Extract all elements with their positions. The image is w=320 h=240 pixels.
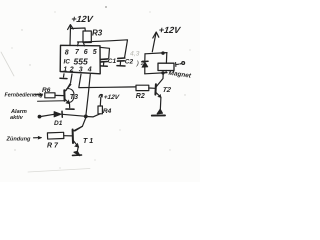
relay coil K1 body [158, 63, 174, 70]
input label Fernbedienung [5, 93, 44, 99]
pin labels 1 2 3 4 [63, 67, 92, 74]
wire pin 2 to T3 collector [66, 74, 72, 91]
faint scan scratch top-left [1, 52, 14, 76]
wire R3 to pins 7 and 6 [78, 42, 87, 46]
wire T3 emitter down [69, 104, 71, 108]
transistor T1 [73, 126, 83, 147]
ground T2 [152, 109, 165, 115]
svg-text:D1: D1 [54, 120, 63, 127]
svg-text:3: 3 [79, 67, 83, 74]
diode D2 flyback [142, 54, 148, 74]
wire T2 emitter down [159, 97, 162, 110]
value label 4,3 (pencil, faint) [130, 51, 140, 58]
svg-text:8: 8 [65, 50, 69, 57]
svg-text:Magnet: Magnet [168, 70, 192, 80]
label T1 [83, 138, 93, 145]
svg-text:+12V: +12V [103, 94, 120, 101]
svg-text:T 1: T 1 [83, 138, 93, 145]
svg-text:IC: IC [64, 59, 71, 66]
ground T3 [66, 108, 74, 110]
stray pen stroke under R6 [38, 100, 65, 102]
ground T1 [73, 151, 82, 155]
wire node A to T1 collector [75, 118, 86, 131]
label R4 [103, 108, 112, 115]
svg-text:C1: C1 [108, 58, 117, 65]
value mark )2 [136, 60, 145, 67]
svg-text:5: 5 [93, 49, 97, 56]
wire +12V branch to R3 [71, 28, 86, 31]
svg-text:T2: T2 [162, 87, 171, 94]
svg-text:R3: R3 [92, 29, 103, 38]
terminal Alarm aktiv [38, 115, 42, 119]
wire R6 to T3 base [55, 94, 64, 96]
input label Alarm aktiv [10, 109, 27, 121]
wire R3 node to C2 [86, 40, 128, 58]
+12V supply label (R4) [103, 94, 120, 101]
svg-text:+12V: +12V [158, 25, 182, 35]
arrow +12V (relay supply) [152, 32, 159, 52]
arrow +12V (R4) [99, 94, 103, 106]
transistor T3 [64, 85, 74, 104]
svg-text:T3: T3 [70, 94, 78, 101]
wire relay top node [145, 53, 167, 54]
wire R7 to T1 base [64, 135, 73, 137]
svg-text:4: 4 [87, 67, 92, 74]
svg-text:4,3: 4,3 [130, 51, 140, 58]
svg-text:555: 555 [74, 57, 88, 67]
+12V supply label (relay) [158, 25, 182, 35]
resistor R3 [83, 31, 91, 43]
arrow Zündung [34, 136, 42, 139]
arrow Fernbedienung [34, 93, 43, 97]
ground pin 1 [60, 74, 67, 79]
capacitor C2 [118, 58, 125, 65]
svg-text:2: 2 [69, 67, 74, 74]
resistor R7 [47, 132, 63, 139]
node top junction [161, 51, 164, 54]
label R7 [47, 143, 59, 150]
relay coil wire [165, 53, 168, 73]
svg-text:R 7: R 7 [47, 143, 59, 150]
wire terminal to D1 [42, 114, 55, 116]
ground C1 [100, 65, 107, 67]
svg-text:aktiv: aktiv [10, 115, 24, 121]
relay contact (dashed to terminal) [176, 62, 185, 67]
label C2 [125, 58, 134, 65]
svg-text:1: 1 [63, 67, 67, 74]
label R2 [136, 93, 145, 100]
svg-text:6: 6 [84, 49, 88, 56]
diode D1 [54, 111, 62, 117]
paper speckle noise [11, 6, 190, 168]
svg-text:+12V: +12V [71, 14, 95, 24]
transistor T2 [155, 74, 163, 98]
node bottom junction [161, 71, 164, 74]
resistor R4 [98, 106, 102, 114]
label C1 [108, 58, 117, 65]
input label Zündung [6, 137, 32, 143]
wire T1 emitter down [76, 147, 79, 152]
label IC 555 [64, 57, 88, 67]
wire pin 3 to R2 [79, 74, 136, 87]
label D1 [54, 120, 63, 127]
svg-text:R2: R2 [136, 93, 145, 100]
faint scan scratch bottom [28, 169, 90, 173]
wire R4 to node A [87, 114, 101, 117]
svg-text:C2: C2 [125, 58, 134, 65]
svg-text:Fernbedienung: Fernbedienung [5, 93, 44, 99]
label T3 [70, 94, 78, 101]
wire pin 5 to C1 [100, 47, 110, 58]
capacitor C1 [101, 59, 108, 65]
+12V supply label (IC) [71, 14, 95, 24]
label Magnet [168, 70, 192, 80]
node A junction [84, 115, 88, 119]
svg-text:Zündung: Zündung [6, 137, 32, 143]
svg-text:7: 7 [75, 49, 80, 56]
pin labels 8 7 6 5 [65, 49, 97, 57]
op-amp/timer IC U1 555 body [60, 45, 100, 74]
resistor R2 [136, 85, 149, 90]
wire relay bottom node [145, 73, 167, 74]
label R6 [42, 87, 51, 94]
label R3 [92, 29, 103, 38]
wire R2 to T2 base [149, 87, 155, 89]
wire D1 to node A [62, 114, 86, 116]
svg-text:R4: R4 [103, 108, 112, 115]
svg-text:R6: R6 [42, 87, 51, 94]
resistor R6 [45, 93, 55, 98]
label T2 [162, 87, 171, 94]
ground C2 [117, 65, 125, 67]
wire pin 4 to node A [86, 74, 91, 116]
arrow +12V (IC supply) [68, 25, 74, 46]
